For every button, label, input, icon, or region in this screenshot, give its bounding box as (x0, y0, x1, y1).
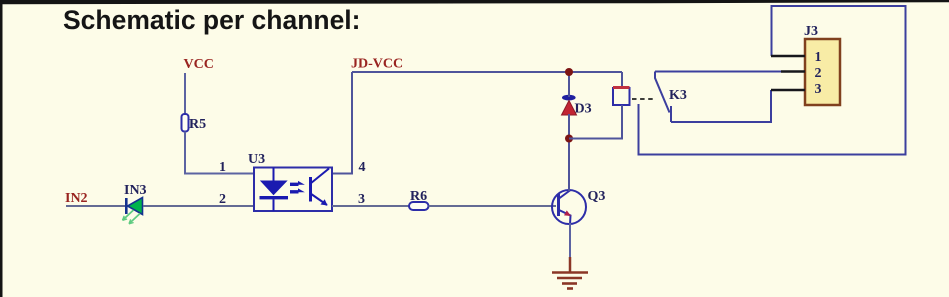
svg-text:4: 4 (359, 160, 366, 175)
svg-text:2: 2 (815, 66, 822, 81)
wire Q3 emitter to ground (569, 223, 571, 259)
svg-text:J3: J3 (804, 24, 818, 39)
svg-text:K3: K3 (669, 88, 687, 103)
net label VCC (184, 57, 214, 72)
wire coil bottom to junction (569, 105, 622, 139)
svg-text:1: 1 (815, 50, 822, 65)
pin number 2 (219, 192, 226, 207)
wire JD-VCC drop to U3 pin 4 (332, 72, 352, 174)
J3 pin 1 stub (771, 55, 805, 58)
pin number 4 (359, 160, 366, 175)
svg-text:D3: D3 (575, 102, 592, 117)
resistor R6 (409, 189, 429, 210)
junction top of D3 (565, 68, 573, 76)
J3 pin 3 stub (771, 89, 805, 92)
svg-text:Schematic per channel:: Schematic per channel: (63, 5, 361, 35)
LED IN3 (123, 183, 147, 224)
svg-text:2: 2 (219, 192, 226, 207)
wire VCC vertical to R5 (184, 73, 186, 114)
relay K3 coil (613, 88, 630, 106)
wire switch common to J3 pin 2 (655, 71, 783, 73)
wire U3 pin 3 to R6 (332, 205, 409, 207)
wire switch NO contact to J3 pin 3 (671, 90, 771, 122)
svg-text:R5: R5 (189, 117, 206, 132)
net label IN2 (65, 191, 88, 206)
wire R5 to U3 pin 1 (185, 132, 255, 174)
resistor R5 (182, 114, 207, 132)
transistor Q3 (552, 189, 605, 224)
wire LED IN3 to U3 pin 2 (143, 205, 254, 207)
svg-text:Q3: Q3 (588, 189, 606, 204)
J3 pin 2 stub (781, 70, 805, 73)
title (63, 5, 361, 35)
wire IN2 to LED IN3 (66, 205, 126, 207)
net label JD-VCC (351, 57, 403, 72)
svg-text:IN2: IN2 (65, 191, 88, 206)
wire JD-VCC rail (352, 71, 622, 73)
wire D3 top (568, 72, 570, 97)
ground (552, 257, 588, 289)
svg-text:3: 3 (815, 82, 822, 97)
pin number 1 (219, 160, 226, 175)
pin number 3 (358, 192, 365, 207)
optocoupler U3 (248, 152, 332, 211)
relay K3 switch (655, 72, 687, 123)
svg-text:1: 1 (219, 160, 226, 175)
diode D3 (562, 95, 592, 117)
junction bottom of D3 (565, 135, 573, 143)
svg-text:3: 3 (358, 192, 365, 207)
wire JD-VCC to relay coil (621, 72, 623, 88)
svg-text:JD-VCC: JD-VCC (351, 57, 403, 72)
wire switch pole loop to J3 pin 1 (639, 6, 906, 155)
wire Q3 collector (568, 138, 570, 191)
relay K3 mechanical dashed link (632, 98, 655, 100)
svg-text:VCC: VCC (184, 57, 214, 72)
connector J3 (804, 24, 840, 105)
svg-text:U3: U3 (248, 152, 265, 167)
wire D3 bottom (568, 114, 570, 139)
wire R6 to Q3 base (429, 205, 557, 207)
svg-text:IN3: IN3 (124, 183, 147, 198)
